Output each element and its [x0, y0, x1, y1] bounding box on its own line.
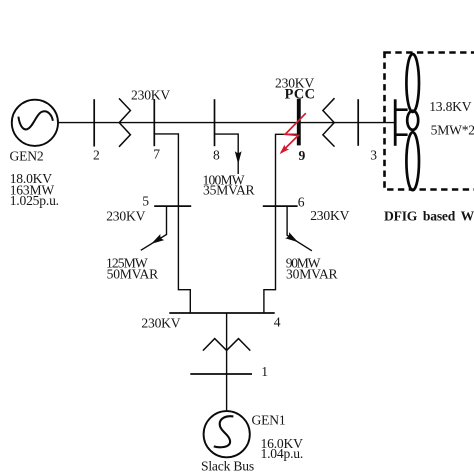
svg-text:230KV: 230KV — [310, 208, 349, 223]
wire bus9 to bus6 to bus4 (right feeder with jog) — [264, 134, 297, 313]
svg-text:230KV: 230KV — [106, 208, 145, 223]
svg-text:30MVAR: 30MVAR — [286, 266, 339, 281]
wire bus4 to bus1 — [226, 313, 228, 374]
svg-text:9: 9 — [299, 148, 306, 163]
wire bus8 load drop — [215, 134, 239, 174]
svg-text:5: 5 — [142, 194, 149, 209]
transformer T1 zigzag (bus2-bus7) — [119, 98, 130, 146]
wire bus6 load stub and diagonal — [287, 206, 312, 251]
red fault lightning bolt at bus 9 — [277, 113, 306, 156]
bus 9 bar (PCC, thick) — [297, 99, 301, 146]
svg-text:7: 7 — [153, 146, 160, 161]
load arrowhead at bus 5 — [149, 234, 164, 247]
transformer T2 zigzag (bus9-bus3) — [323, 98, 335, 146]
generator GEN1 S symbol — [214, 416, 234, 447]
DFIG dashed box — [385, 53, 474, 190]
generator GEN2 sine symbol — [18, 111, 53, 129]
svg-text:GEN2: GEN2 — [10, 148, 44, 163]
svg-text:5MW*2: 5MW*2 — [431, 123, 474, 138]
bus 4 bar — [169, 312, 274, 314]
svg-text:230KV: 230KV — [131, 87, 170, 102]
svg-text:6: 6 — [298, 195, 305, 210]
svg-text:50MVAR: 50MVAR — [107, 266, 160, 281]
svg-text:1: 1 — [261, 364, 268, 379]
wire bus1 to GEN1 — [226, 374, 228, 411]
transformer T3 zigzag (bus4-bus1) — [203, 339, 250, 351]
generator GEN2 circle — [12, 100, 58, 146]
generator GEN1 circle — [204, 411, 250, 457]
wind turbine prong lower — [395, 133, 407, 136]
bus 8 bar — [214, 99, 216, 146]
bus 7 bar — [153, 99, 155, 146]
wire main horizontal bus line — [58, 122, 395, 124]
wind turbine hub middle ellipse — [407, 111, 418, 130]
svg-text:1.025p.u.: 1.025p.u. — [10, 193, 59, 208]
svg-text:DFIG based Wind: DFIG based Wind — [384, 208, 474, 223]
svg-text:4: 4 — [274, 314, 281, 329]
load arrowhead at bus 6 — [285, 232, 300, 245]
svg-text:13.8KV: 13.8KV — [429, 99, 472, 114]
wire bus7 to bus5 to bus4 (left feeder with jog) — [154, 134, 190, 313]
load arrowhead at bus 8 — [235, 151, 242, 164]
bus 2 bar — [93, 99, 95, 146]
wind turbine prong upper — [395, 108, 407, 111]
bus 1 bar — [190, 373, 252, 375]
svg-text:8: 8 — [213, 148, 220, 163]
wind turbine bar — [394, 99, 397, 146]
svg-text:230KV: 230KV — [141, 316, 180, 331]
svg-text:2: 2 — [93, 148, 100, 163]
svg-text:1.04p.u.: 1.04p.u. — [261, 446, 304, 461]
svg-text:PCC: PCC — [285, 87, 316, 103]
bus 5 bar — [154, 205, 191, 207]
bus 3 bar — [357, 99, 359, 146]
bus 6 bar — [263, 205, 298, 207]
svg-text:GEN1: GEN1 — [252, 413, 286, 428]
wind turbine blade bottom ellipse — [406, 132, 419, 190]
wind turbine blade top ellipse — [406, 54, 419, 112]
wire bus5 load stub and diagonal — [141, 206, 167, 250]
svg-text:Slack Bus: Slack Bus — [201, 459, 254, 474]
svg-text:3: 3 — [370, 147, 377, 162]
svg-text:35MVAR: 35MVAR — [203, 183, 256, 198]
